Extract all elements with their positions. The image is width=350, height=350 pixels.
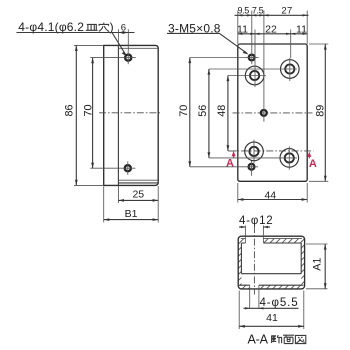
left view inner vertical edge — [117, 45, 119, 185]
svg-text:70: 70 — [178, 105, 190, 117]
section line A-A — [229, 150, 314, 152]
kanji sara — [86, 24, 98, 30]
extension line top for dim 86 — [74, 44, 104, 46]
section hatch left wall — [238, 239, 241, 286]
svg-text:70: 70 — [83, 104, 95, 116]
phi5.5 hole edge right — [258, 285, 260, 308]
counterbore hole top-left — [245, 66, 264, 85]
dim row2 line — [238, 33, 307, 35]
tap note underline — [167, 32, 220, 34]
dim 89 extensions — [309, 43, 328, 45]
red section arrow left — [232, 151, 236, 156]
horiz extension y57.5 — [190, 57, 245, 59]
svg-text:48: 48 — [216, 105, 228, 117]
svg-text:A-A: A-A — [248, 333, 269, 347]
counterbore hole top-right — [281, 58, 300, 81]
section cavity bottom line — [241, 273, 301, 275]
kanji ana — [99, 23, 110, 32]
section outer outline — [238, 236, 304, 289]
extension line bottom for dim 86 — [74, 184, 104, 186]
tapped hole M5 bottom — [249, 160, 255, 176]
vertical extension part right edge — [306, 11, 308, 45]
svg-text:A: A — [309, 158, 317, 170]
left view horizontal centerline — [99, 112, 162, 114]
horiz extension y75.7 — [228, 75, 266, 77]
vertical extension center hole — [263, 11, 265, 122]
tapped hole M5 top — [245, 55, 259, 61]
dimension 86 line — [75, 45, 78, 185]
svg-text:A1: A1 — [311, 258, 323, 271]
svg-text:A: A — [226, 157, 234, 169]
vertical extension cbore left — [254, 30, 256, 88]
dim 44 line — [238, 198, 307, 201]
left view inner bottom edge 2 — [118, 182, 157, 184]
phi12 hole edge right — [262, 226, 264, 244]
section hole centerline — [253, 226, 255, 295]
phi5.5 hole edge left — [249, 285, 251, 308]
section inner top surface — [241, 242, 301, 244]
counterbore hole bottom-right — [280, 146, 299, 169]
svg-text:4-φ5.5: 4-φ5.5 — [260, 297, 299, 309]
extension line for dim 70 bottom hole — [90, 167, 120, 169]
svg-text:22: 22 — [265, 23, 277, 35]
kanji zu — [295, 335, 305, 343]
kanji men — [283, 335, 294, 343]
svg-text:56: 56 — [197, 105, 209, 117]
vertical extension cbore right — [290, 30, 292, 59]
dim 6 arrows — [118, 31, 124, 34]
dim A1 line — [324, 244, 327, 289]
vertical extension small hole top — [251, 11, 253, 65]
tap note leader arrowhead — [243, 51, 249, 55]
svg-text:11: 11 — [237, 23, 248, 35]
section top inner lip line — [241, 238, 302, 240]
dim 44 extensions — [237, 183, 239, 203]
svg-text:86: 86 — [63, 104, 75, 116]
section inner left wall — [240, 243, 242, 274]
dim row1 line — [235, 14, 309, 16]
svg-text:25: 25 — [132, 189, 144, 201]
svg-text:B1: B1 — [125, 208, 138, 220]
extension line for dim 70 top hole — [90, 57, 120, 59]
svg-text:27: 27 — [281, 6, 292, 17]
dim 56 line — [208, 69, 211, 158]
section hatch bottom band left — [239, 285, 249, 289]
leader to countersink hole — [112, 33, 126, 55]
svg-text:4-φ12: 4-φ12 — [239, 215, 273, 227]
tapped hole M5 center — [261, 110, 267, 116]
leader arrowhead — [122, 52, 127, 57]
plan view horizontal centerline — [233, 112, 313, 114]
dim B1 extensions — [103, 187, 105, 223]
svg-text:44: 44 — [264, 190, 276, 202]
section bottom inner line — [239, 284, 303, 286]
plan view outline — [238, 44, 307, 181]
dim B1 line — [104, 218, 159, 221]
left view outline — [104, 45, 159, 185]
dim 41 line — [239, 325, 304, 328]
horiz extension y166.8 — [190, 166, 258, 168]
label underline and dim 6 line — [17, 32, 135, 34]
counterbore hole bottom-left — [245, 140, 264, 163]
dim 89 line — [324, 44, 327, 181]
tap note leader — [220, 33, 248, 53]
left view top countersink hole — [121, 51, 136, 64]
dim 48 line — [227, 76, 230, 151]
dim 25 extensions — [117, 186, 119, 203]
section inner right wall — [300, 243, 302, 274]
dim A1 extensions — [306, 243, 328, 245]
svg-text:7.5: 7.5 — [252, 6, 264, 16]
svg-text:11: 11 — [296, 23, 307, 35]
horiz extension y157.9 — [209, 157, 297, 159]
dim 70 line (plan) — [188, 58, 191, 167]
phi12 dim arrows — [239, 226, 245, 228]
section hatch top band left — [241, 238, 246, 243]
svg-text:9.5: 9.5 — [238, 6, 250, 16]
red section arrow right — [307, 152, 311, 157]
section hatch bottom band right — [259, 285, 304, 289]
section hatch top band right — [263, 238, 302, 243]
svg-text:6: 6 — [121, 23, 126, 34]
horiz extension y69 — [209, 68, 297, 70]
kanji dan — [272, 335, 282, 343]
svg-text:41: 41 — [266, 312, 278, 324]
dim 25 line — [118, 199, 158, 202]
left view bottom countersink hole — [120, 161, 135, 175]
svg-text:89: 89 — [314, 105, 326, 117]
horiz extension y150.9 — [228, 150, 237, 152]
dimension 70 line (left view) — [91, 58, 94, 169]
phi12 hole edge left — [244, 226, 246, 244]
vertical extension part left edge — [237, 11, 239, 45]
phi5.5 dim line with arrows — [244, 307, 299, 309]
dim 41 extensions — [238, 291, 240, 330]
section hatch right wall — [301, 239, 304, 286]
left view inner bottom edge 1 — [118, 179, 157, 181]
dim 6 extension verticals — [117, 29, 119, 45]
left view inner top edge — [118, 47, 157, 49]
